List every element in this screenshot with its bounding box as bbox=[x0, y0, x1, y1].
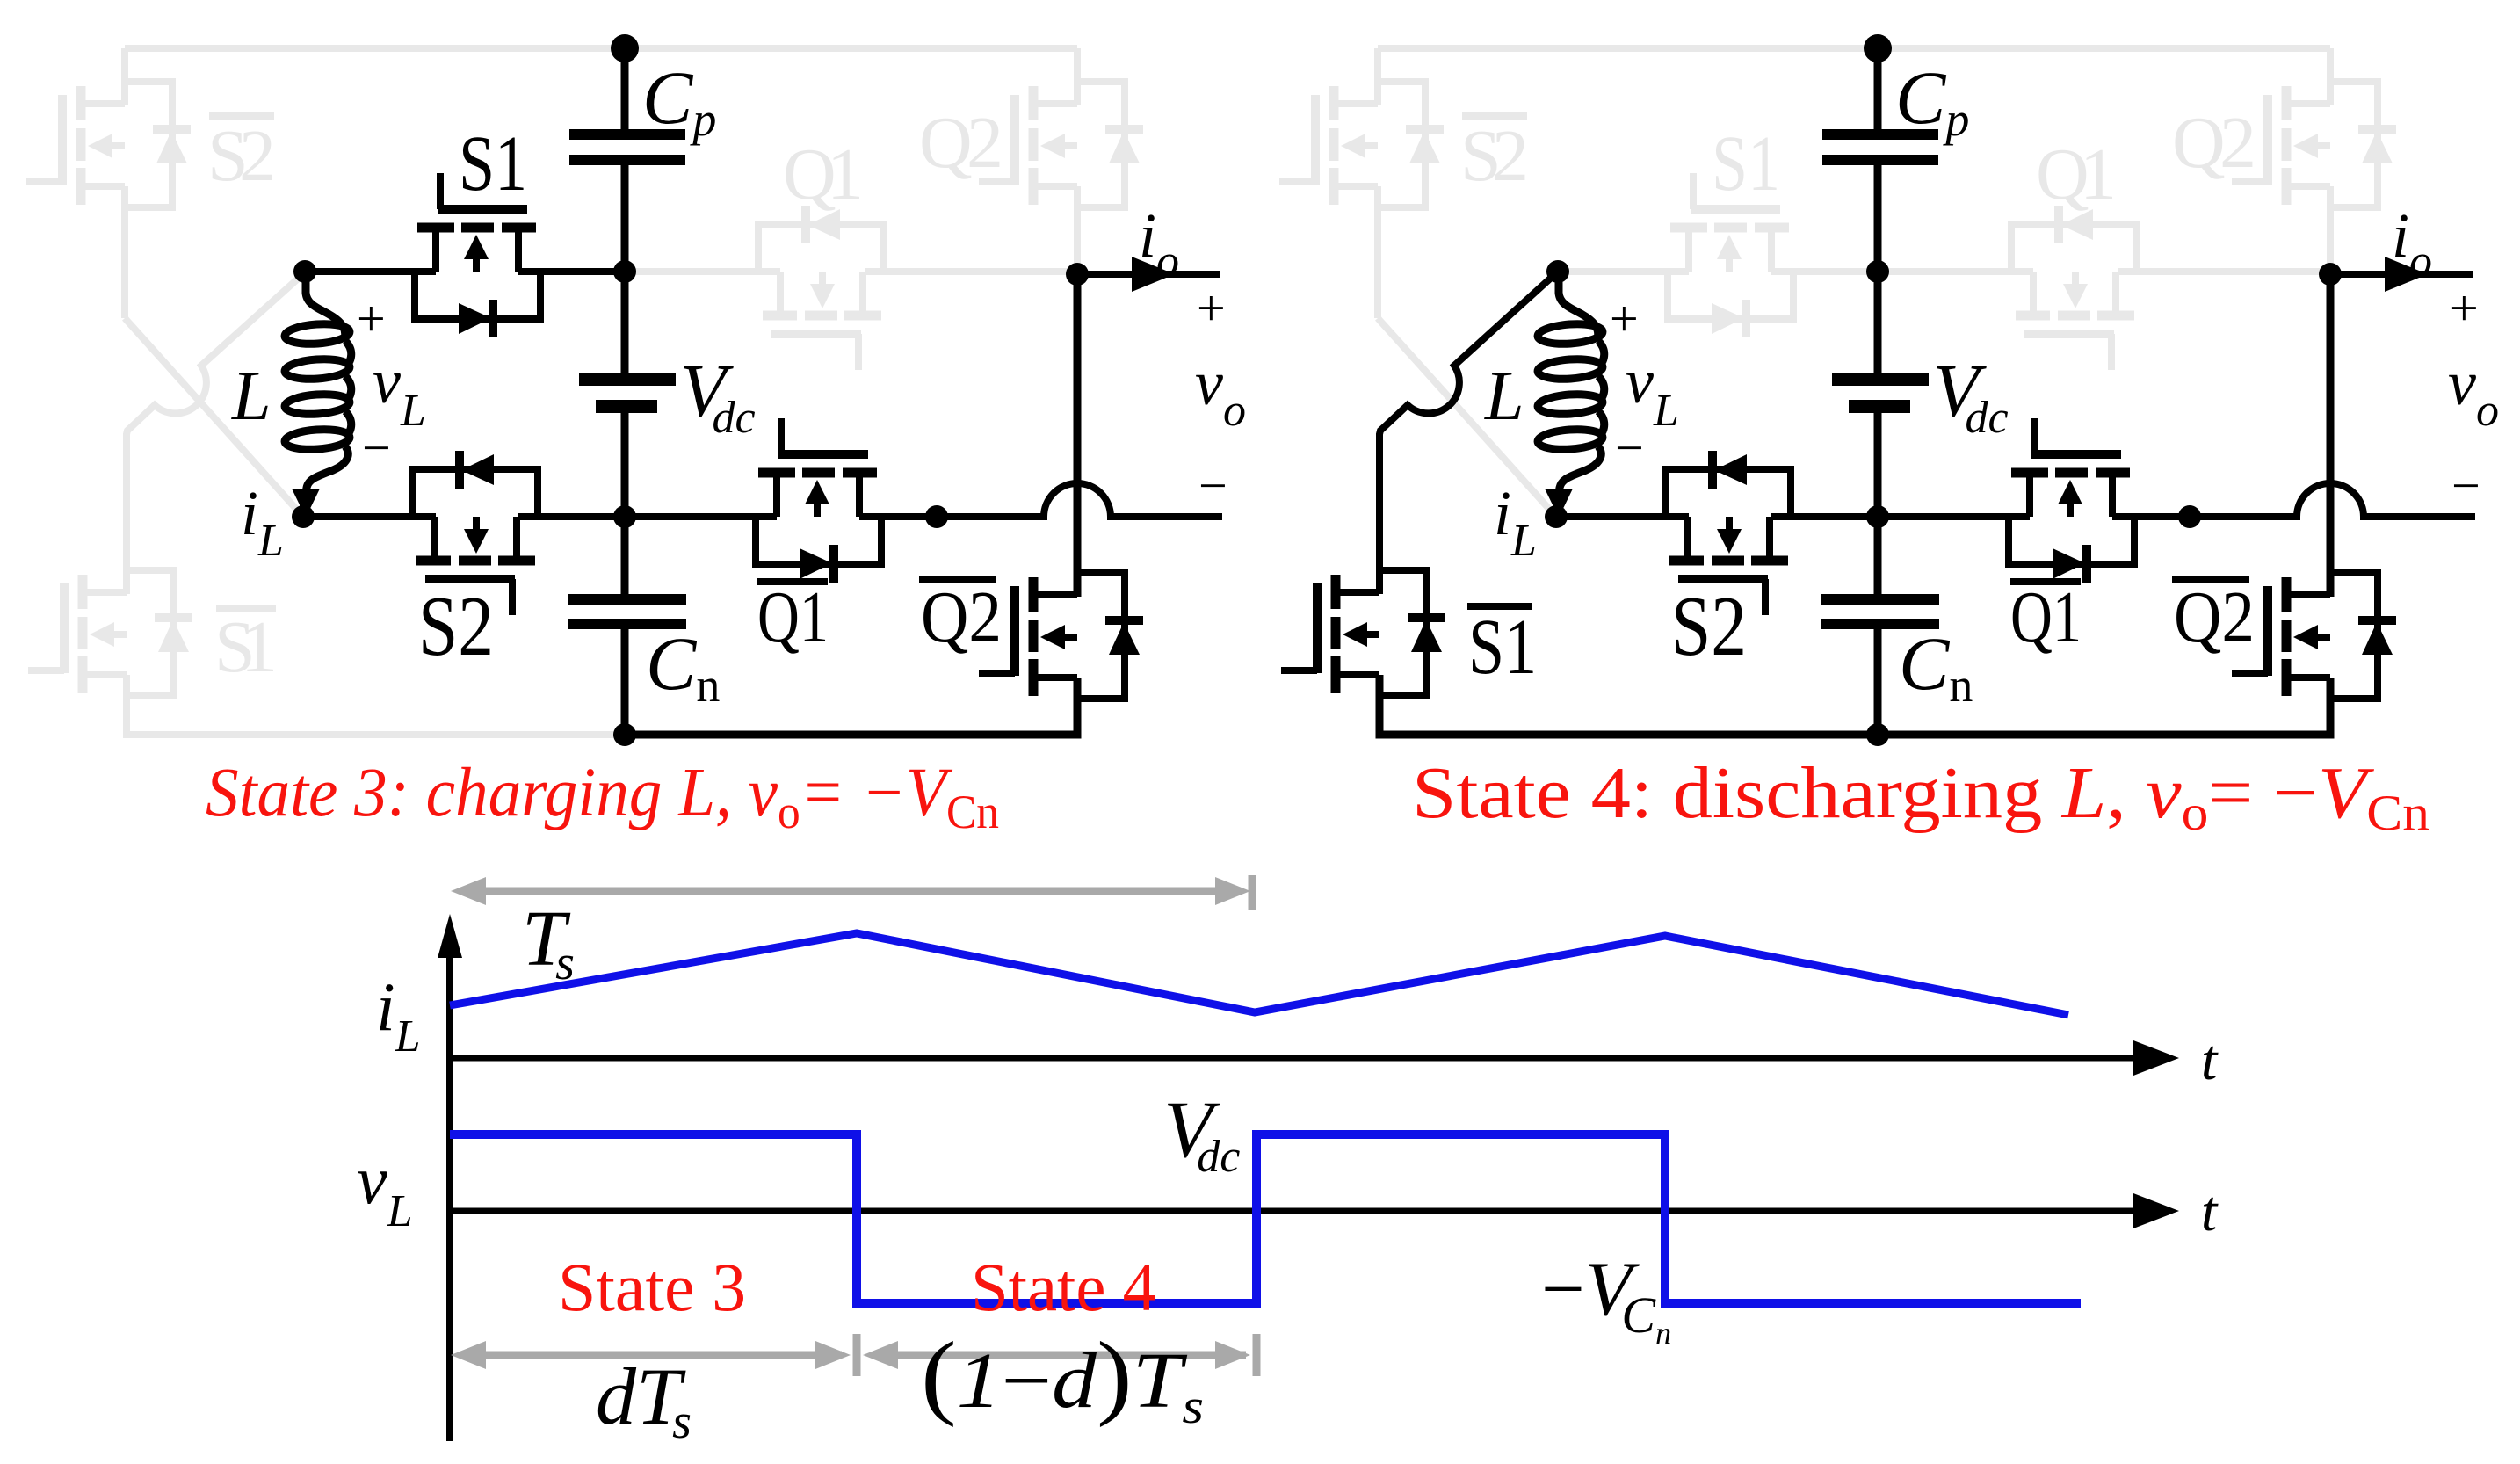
ghost transistor S1bar (bottom-left) bbox=[28, 570, 192, 696]
ghost top rail bbox=[125, 45, 1077, 52]
transistor Q2bar bbox=[979, 573, 1143, 699]
ghost label Q2 right bbox=[2172, 102, 2256, 184]
svg-text:(1−d)Ts: (1−d)Ts bbox=[921, 1323, 1204, 1434]
svg-text:State 4: State 4 bbox=[971, 1249, 1156, 1325]
svg-text:−: − bbox=[1198, 457, 1227, 514]
ghost diagonal B (to iL node) bbox=[125, 318, 303, 517]
svg-text:S1: S1 bbox=[1712, 120, 1780, 207]
junction dots bbox=[292, 34, 1089, 746]
svg-text:S1: S1 bbox=[214, 606, 278, 688]
svg-text:−: − bbox=[2451, 457, 2480, 514]
iL axis vertical bbox=[446, 939, 453, 1441]
svg-text:State 3: State 3 bbox=[558, 1249, 746, 1325]
svg-text:Q1: Q1 bbox=[757, 576, 829, 658]
capacitor Cn right bbox=[1821, 594, 1939, 629]
transistor Q1bar right bbox=[2009, 418, 2134, 583]
black wires: top rail with S1 bbox=[305, 268, 625, 275]
inductor L bbox=[284, 272, 351, 518]
black center vertical column right bbox=[1874, 48, 1882, 735]
vL axis horizontal with arrow bbox=[450, 1208, 2135, 1214]
ghost mid top rail through Q1 bbox=[625, 268, 1077, 275]
svg-text:Q2: Q2 bbox=[2174, 576, 2255, 658]
ghost label S2bar bbox=[207, 112, 276, 197]
svg-text:+: + bbox=[2450, 279, 2479, 337]
transistor S1 bbox=[415, 173, 540, 337]
svg-text:State 3: charging L, vo= −VCn: State 3: charging L, vo= −VCn bbox=[206, 755, 999, 838]
ghost Q2 vertical wires right bbox=[2327, 48, 2334, 274]
Ts double arrow bbox=[460, 875, 1252, 910]
ghost left vertical upper right bbox=[1374, 48, 1381, 318]
ghost transistor Q1 (top-center) bbox=[758, 206, 884, 370]
(1-d)Ts double arrow bbox=[873, 1334, 1256, 1376]
capacitor Cn bbox=[568, 594, 686, 629]
black bottom rail right bbox=[1379, 675, 2330, 735]
svg-text:S2: S2 bbox=[1671, 579, 1747, 674]
wire from coil arrow to node bbox=[300, 492, 307, 514]
svg-text:Q2: Q2 bbox=[921, 576, 1002, 658]
svg-text:S2: S2 bbox=[418, 579, 494, 674]
black Q2 vertical wire right bbox=[2327, 274, 2335, 597]
label plus vL minus bbox=[357, 290, 426, 476]
ghost label S2bar right bbox=[1460, 112, 1529, 197]
ghost diagonal B right bbox=[1378, 318, 1556, 517]
svg-text:L: L bbox=[1484, 358, 1524, 435]
dTs double arrow bbox=[460, 1334, 857, 1376]
ghost diagonal A with bump bbox=[127, 272, 625, 735]
ghost transistor Q2 (top-right) bbox=[979, 82, 1143, 207]
iL axis horizontal with arrow bbox=[450, 1055, 2135, 1062]
label Q1bar right bbox=[2010, 576, 2082, 658]
ghost label Q2 bbox=[919, 102, 1003, 184]
svg-text:t: t bbox=[2201, 1028, 2219, 1092]
label plus vo minus right bbox=[2448, 279, 2499, 514]
label plus vL minus right bbox=[1610, 290, 1679, 476]
ghost Q2 vertical wires bbox=[1074, 48, 1081, 274]
blue iL waveform bbox=[450, 933, 2068, 1015]
label Q1bar bbox=[757, 576, 829, 658]
label plus vo minus (output) bbox=[1195, 279, 1246, 514]
svg-text:−: − bbox=[362, 419, 391, 476]
label S1bar right bbox=[1467, 603, 1537, 691]
wire from coil arrow to node right bbox=[1553, 492, 1560, 514]
label Q2bar right bbox=[2172, 576, 2255, 658]
black diagonal with bump right bbox=[1379, 272, 1558, 594]
ghost top rail right bbox=[1378, 45, 2330, 52]
ghost transistor S1 right bbox=[1668, 173, 1793, 337]
svg-text:Q1: Q1 bbox=[2036, 134, 2117, 215]
output current arrow io bbox=[1077, 257, 1220, 292]
svg-text:S1: S1 bbox=[459, 120, 527, 207]
black mid rail with hump bbox=[303, 483, 1222, 517]
ghost transistor S2bar right bbox=[1279, 82, 1444, 207]
ghost label S1 right bbox=[1712, 120, 1780, 207]
ghost label S1bar bbox=[214, 605, 278, 688]
svg-text:Q2: Q2 bbox=[919, 102, 1003, 184]
svg-text:S2: S2 bbox=[207, 115, 276, 197]
transistor Q2bar right bbox=[2232, 573, 2396, 699]
label Q2bar bbox=[919, 576, 1002, 658]
inductor L right bbox=[1537, 272, 1604, 518]
svg-text:t: t bbox=[2201, 1179, 2219, 1243]
svg-text:S1: S1 bbox=[1468, 604, 1537, 691]
svg-text:L: L bbox=[231, 358, 272, 435]
svg-text:State 4: discharging L, vo= −V: State 4: discharging L, vo= −VCn bbox=[1412, 752, 2429, 841]
capacitor Cp bbox=[569, 129, 685, 165]
svg-text:S2: S2 bbox=[1460, 115, 1529, 197]
svg-text:Q1: Q1 bbox=[783, 134, 864, 215]
black center vertical column bbox=[621, 48, 629, 735]
ghost transistor Q1 right bbox=[2011, 206, 2137, 370]
svg-text:−: − bbox=[1615, 419, 1644, 476]
ghost left vertical upper bbox=[121, 48, 128, 318]
svg-text:Q1: Q1 bbox=[2010, 576, 2082, 658]
ghost transistor S2bar (top-left) bbox=[26, 82, 191, 207]
black bottom rail bbox=[625, 678, 1077, 735]
blue vL square wave bbox=[450, 1134, 2081, 1303]
junction dots right bbox=[1545, 34, 2342, 746]
transistor S2 bbox=[412, 451, 538, 615]
capacitor Cp right bbox=[1822, 129, 1938, 165]
black mid rail right bbox=[1556, 483, 2475, 517]
svg-text:+: + bbox=[1197, 279, 1226, 337]
ghost transistor Q2 right bbox=[2232, 82, 2396, 207]
transistor Q1bar bbox=[756, 418, 881, 583]
ghost top rail through S1 and Q1 right bbox=[1558, 268, 2330, 275]
transistor S1bar right (black vertical) bbox=[1281, 570, 1445, 696]
output current arrow io right bbox=[2330, 257, 2473, 292]
black Q2 vertical wire + output bbox=[1074, 274, 1082, 597]
svg-text:dTs: dTs bbox=[596, 1352, 692, 1449]
transistor S2 right bbox=[1665, 451, 1791, 615]
svg-text:+: + bbox=[357, 290, 386, 347]
svg-text:Q2: Q2 bbox=[2172, 102, 2256, 184]
battery Vdc bbox=[579, 373, 676, 413]
ghost label Q1 bbox=[783, 134, 864, 215]
svg-text:+: + bbox=[1610, 290, 1639, 347]
battery Vdc right bbox=[1832, 373, 1929, 413]
ghost label Q1 right bbox=[2036, 134, 2117, 215]
